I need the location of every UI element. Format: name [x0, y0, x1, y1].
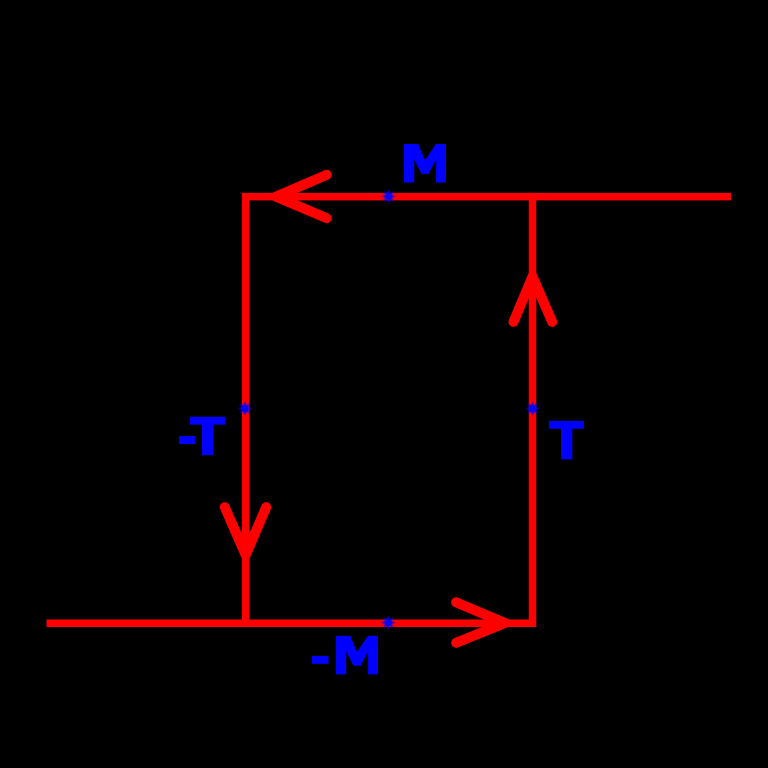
arrow right (on bottom line)	[456, 602, 505, 643]
arrow down (on left line)	[225, 507, 266, 555]
label -T (left): T	[190, 417, 225, 455]
label -M (bottom): hyphen	[312, 656, 329, 664]
node marker on top line (M point)	[383, 191, 394, 202]
arrow up (on right line)	[514, 277, 553, 322]
arrow left (on top line)	[276, 175, 327, 218]
label T (right)	[549, 421, 584, 459]
label -T (left): hyphen	[179, 436, 195, 444]
node marker on right line (T point)	[527, 403, 538, 414]
wire lower branch: bottom horizontal (-M level) + right vertical (T transition)	[47, 193, 533, 623]
node marker on bottom line (-M point)	[383, 617, 394, 628]
label -M (bottom): M	[336, 636, 378, 675]
label M (top)	[404, 144, 446, 183]
wire upper branch: top horizontal (M level) + left vertical (-T transition)	[246, 197, 731, 627]
node marker on left line (-T point)	[240, 403, 251, 414]
